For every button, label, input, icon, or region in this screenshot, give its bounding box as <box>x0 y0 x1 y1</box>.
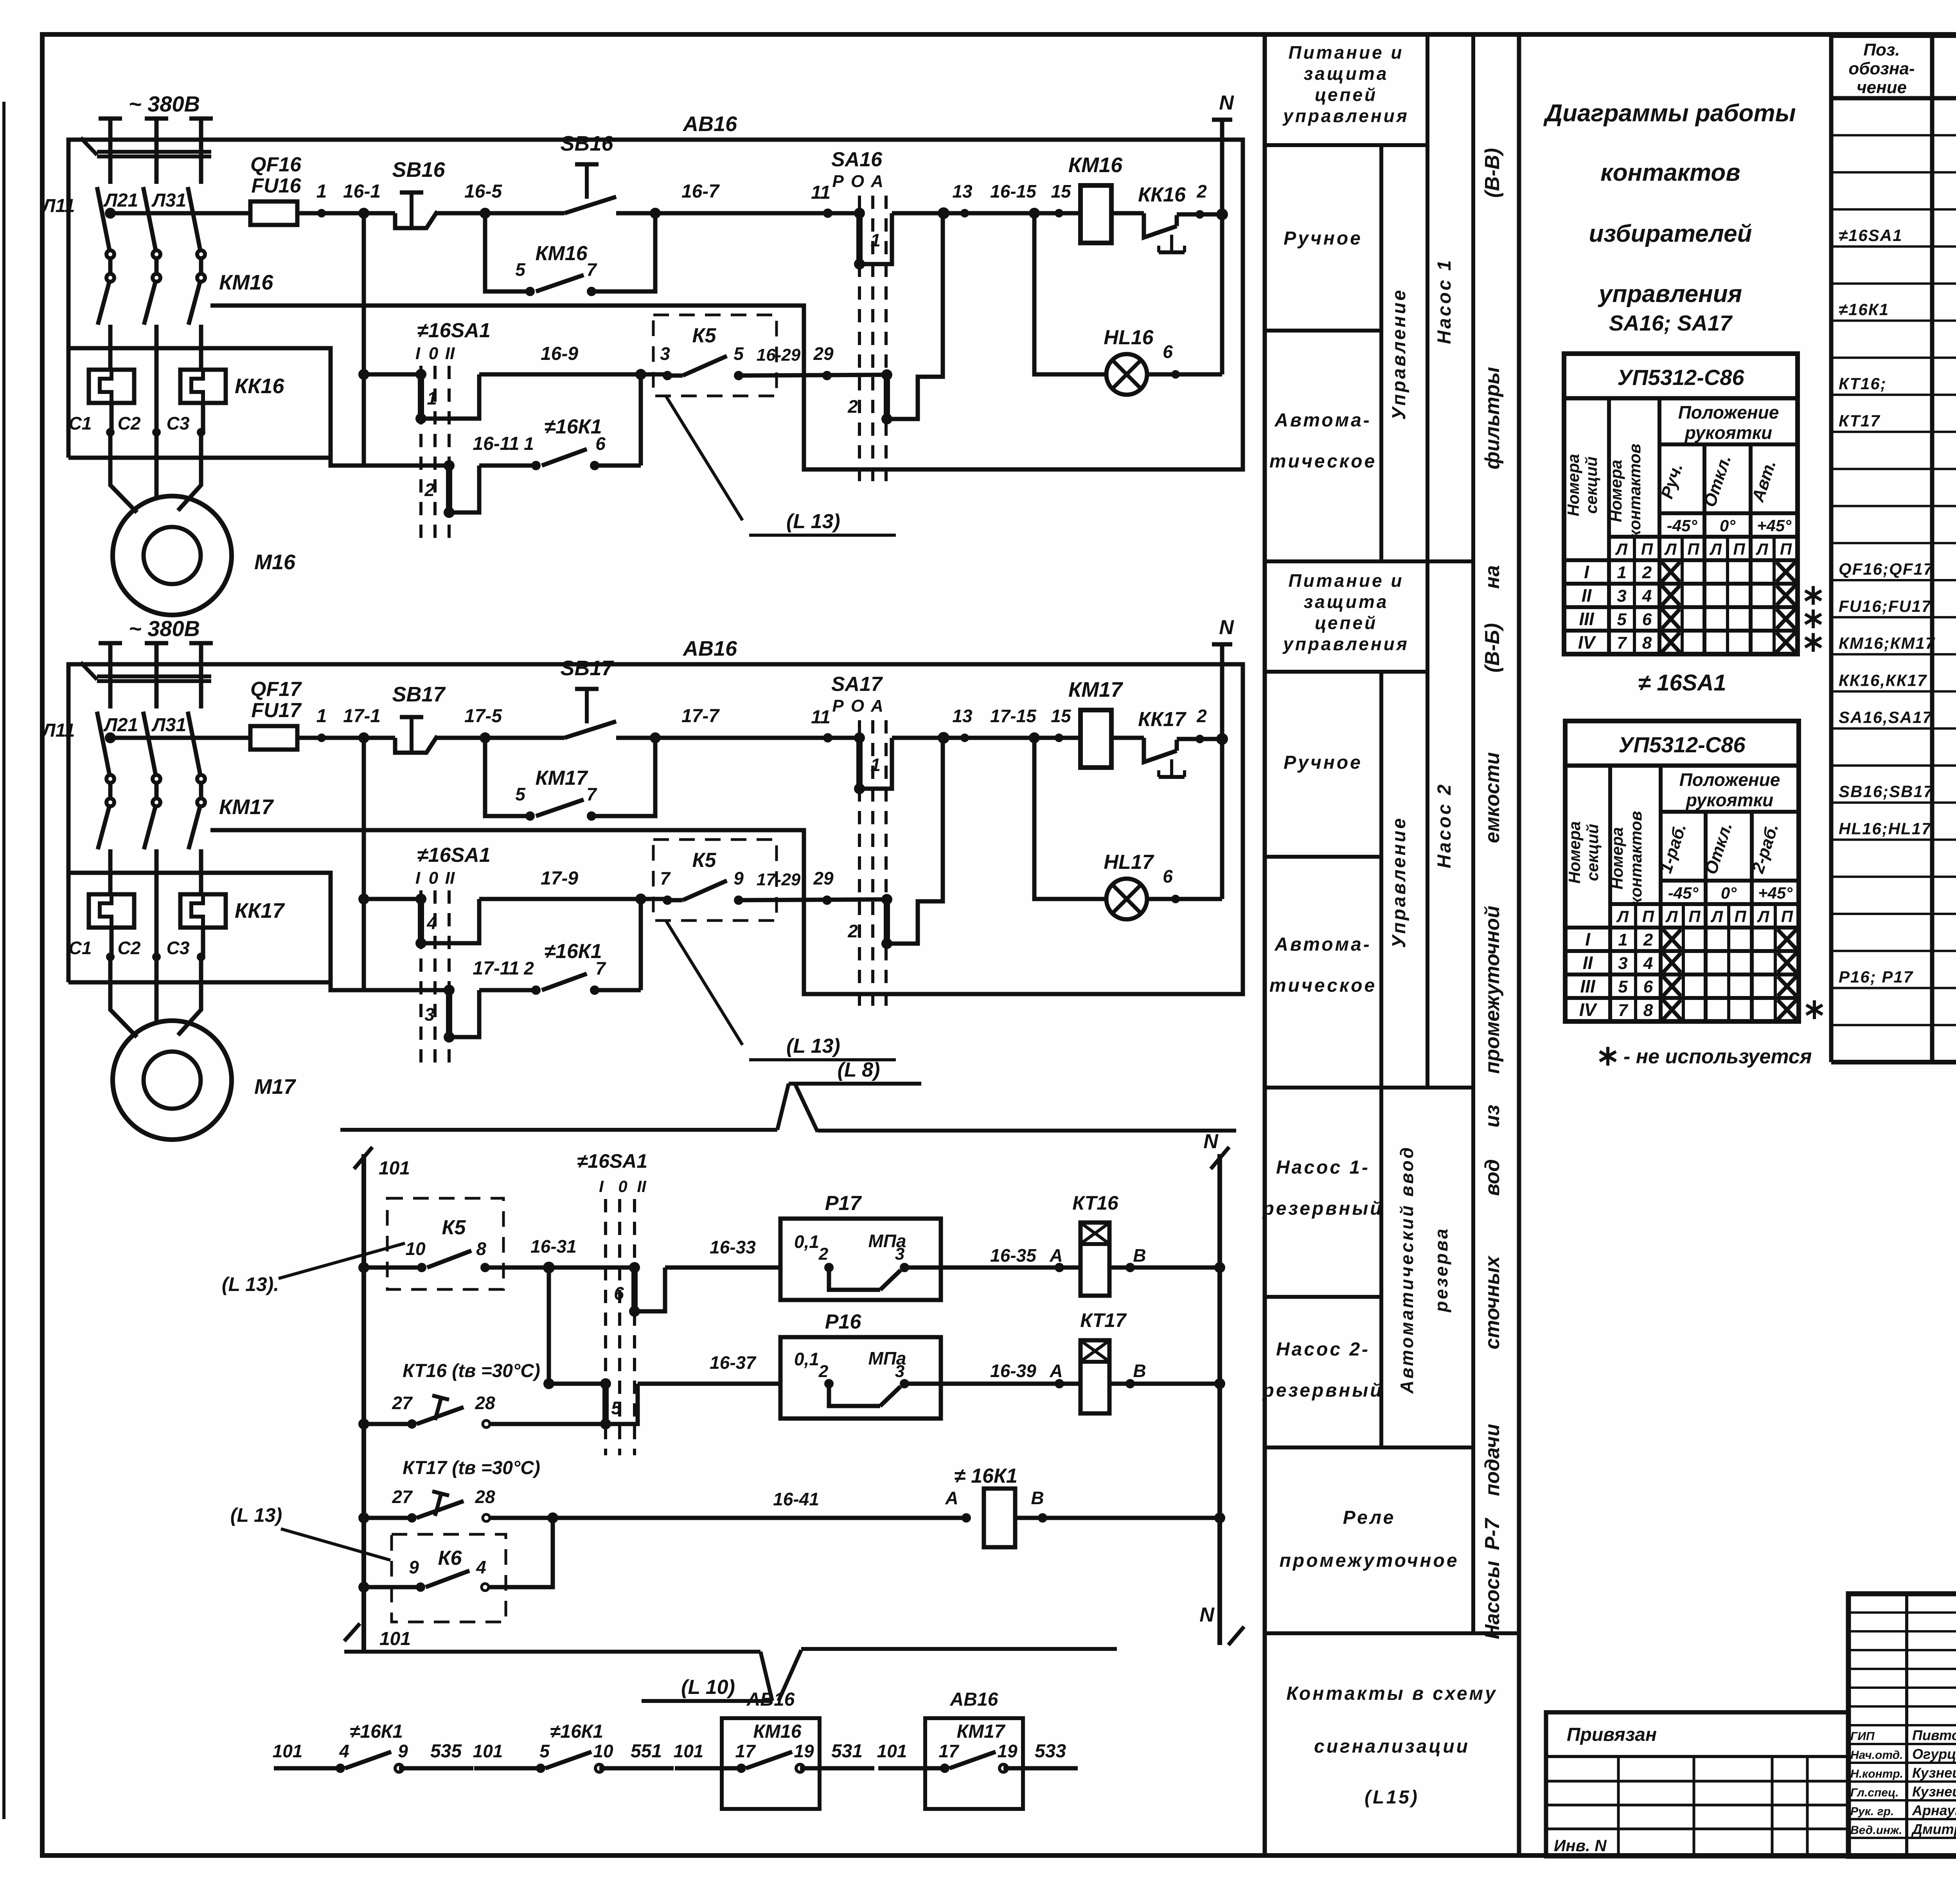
svg-text:17-9: 17-9 <box>541 868 578 889</box>
svg-text:К6: К6 <box>438 1547 462 1570</box>
thermal relay NC contact КК17 <box>1111 736 1144 740</box>
svg-text:3: 3 <box>895 1362 904 1381</box>
svg-text:Дмитриева: Дмитриева <box>1911 1821 1956 1837</box>
svg-text:фильтры: фильтры <box>1481 367 1504 469</box>
svg-text:SА16: SА16 <box>831 148 883 171</box>
selector table grid <box>1565 764 1799 768</box>
svg-text:16-1: 16-1 <box>343 181 381 202</box>
svg-text:2: 2 <box>1643 930 1653 949</box>
svg-text:КМ17: КМ17 <box>1068 678 1124 701</box>
svg-text:3: 3 <box>424 1004 435 1025</box>
svg-text:К5: К5 <box>442 1216 466 1239</box>
svg-text:1: 1 <box>870 230 881 250</box>
parts table row lines <box>1831 134 1956 137</box>
svg-text:2: 2 <box>847 921 858 941</box>
svg-text:КК16,КК17: КК16,КК17 <box>1839 671 1927 689</box>
svg-text:16-15: 16-15 <box>990 181 1037 201</box>
svg-text:К5: К5 <box>692 849 717 872</box>
svg-text:резервный: резервный <box>1262 1380 1383 1401</box>
svg-text:резервный: резервный <box>1262 1198 1383 1219</box>
svg-text:КК17: КК17 <box>235 899 285 922</box>
svg-text:9: 9 <box>733 868 744 888</box>
svg-text:управления: управления <box>1282 634 1409 654</box>
note: asterisk means not used <box>1606 1047 1609 1066</box>
svg-text:чение: чение <box>1857 78 1907 97</box>
node 16-1 <box>358 208 369 219</box>
svg-text:Р: Р <box>832 696 844 716</box>
svg-text:Автоматический ввод: Автоматический ввод <box>1397 1145 1417 1394</box>
svg-text:-45°: -45° <box>1668 884 1699 902</box>
svg-text:≠16К1: ≠16К1 <box>350 1721 403 1742</box>
svg-text:- не используется: - не используется <box>1623 1045 1812 1068</box>
selector contact SА16 pos 1 <box>854 208 865 219</box>
svg-text:0°: 0° <box>1720 516 1736 535</box>
svg-text:+45°: +45° <box>1758 884 1793 902</box>
left bus 101 top tick <box>354 1147 372 1169</box>
svg-text:III: III <box>1579 609 1595 629</box>
svg-text:Л: Л <box>1616 907 1629 926</box>
svg-text:SА17: SА17 <box>831 673 883 696</box>
selector 16SA1 contact lower circuit 1 <box>444 460 455 471</box>
junction 16-7 circuit 2 <box>650 732 661 743</box>
svg-text:сточных: сточных <box>1481 1255 1504 1350</box>
svg-text:1: 1 <box>1617 563 1626 582</box>
node 6 circuit 2 <box>1171 895 1180 903</box>
svg-text:АВ16: АВ16 <box>746 1689 795 1710</box>
svg-text:Пивторак: Пивторак <box>1912 1727 1956 1743</box>
title block outer box <box>1848 1594 1956 1856</box>
svg-text:QF17: QF17 <box>250 678 302 701</box>
svg-text:УП5312-С86: УП5312-С86 <box>1618 732 1746 757</box>
svg-text:С1: С1 <box>69 938 92 958</box>
svg-text:2: 2 <box>818 1244 829 1264</box>
svg-text:4: 4 <box>426 913 437 933</box>
signal lamp НL16 <box>1106 354 1147 395</box>
fuse FU16 <box>250 201 297 225</box>
svg-text:4: 4 <box>339 1741 349 1761</box>
svg-text:(L 13): (L 13) <box>786 1035 840 1057</box>
svg-text:N: N <box>1199 1604 1215 1626</box>
junction to coil feed circuit 2 <box>938 732 949 744</box>
svg-text:FU16;FU17: FU16;FU17 <box>1839 597 1931 615</box>
svg-text:Номера: Номера <box>1564 454 1582 516</box>
KT17 timed contact row 3 <box>358 1512 369 1523</box>
16SA1 contact 6 <box>629 1262 640 1273</box>
svg-text:В: В <box>1133 1361 1146 1381</box>
svg-text:4: 4 <box>1643 954 1653 973</box>
left bus bottom tick <box>344 1624 360 1641</box>
svg-text:О: О <box>851 172 864 191</box>
svg-text:ГИП: ГИП <box>1850 1730 1875 1743</box>
svg-text:8: 8 <box>1643 1001 1653 1020</box>
X marks closed contact states <box>1663 930 1681 949</box>
parts table outer verticals <box>1829 36 1834 1062</box>
svg-text:5: 5 <box>611 1398 622 1418</box>
pressure switch P17 <box>780 1219 941 1300</box>
svg-text:Л11: Л11 <box>41 720 75 741</box>
aux contact branch КМ16 <box>485 213 530 291</box>
selector contact SА16 pos 2 <box>881 369 892 380</box>
16SA1 contact 5 <box>600 1378 611 1389</box>
node 11 circuit 1 <box>823 209 832 218</box>
svg-text:≠16К1: ≠16К1 <box>1839 300 1889 319</box>
svg-text:7: 7 <box>586 259 597 280</box>
svg-text:16-29: 16-29 <box>757 345 801 365</box>
svg-text:3: 3 <box>660 343 670 364</box>
svg-text:Рук. гр.: Рук. гр. <box>1850 1805 1894 1818</box>
svg-text:16-41: 16-41 <box>773 1489 819 1509</box>
svg-text:М16: М16 <box>254 550 296 574</box>
aux contact branch КМ17 <box>485 738 530 816</box>
svg-text:13: 13 <box>952 181 973 201</box>
svg-text:4: 4 <box>476 1557 486 1577</box>
svg-text:Л21: Л21 <box>103 715 138 735</box>
motor М16 <box>113 496 232 615</box>
right bus N <box>1217 1154 1222 1645</box>
svg-text:II: II <box>445 868 455 888</box>
svg-text:I: I <box>1584 562 1589 582</box>
svg-text:10: 10 <box>405 1239 426 1259</box>
svg-text:КМ16: КМ16 <box>753 1721 802 1742</box>
fuse FU17 <box>250 726 297 750</box>
svg-text:551: 551 <box>631 1741 662 1762</box>
svg-text:Контакты в схему: Контакты в схему <box>1286 1683 1498 1704</box>
svg-text:SВ17: SВ17 <box>560 656 614 680</box>
svg-text:1: 1 <box>427 388 437 408</box>
svg-text:КТ17: КТ17 <box>1080 1309 1127 1331</box>
svg-text:Номера: Номера <box>1607 460 1625 522</box>
svg-text:управления: управления <box>1282 106 1409 126</box>
svg-text:2: 2 <box>424 480 435 500</box>
node 29 circuit 2 <box>822 895 832 905</box>
svg-text:Л: Л <box>1756 540 1769 558</box>
contactor main contacts КМ17 <box>106 798 114 806</box>
svg-text:Гл.спец.: Гл.спец. <box>1850 1786 1899 1799</box>
svg-text:КТ16 (tв =30°С): КТ16 (tв =30°С) <box>403 1361 540 1381</box>
svg-text:АВ16: АВ16 <box>950 1689 998 1710</box>
svg-text:Л: Л <box>1665 907 1678 926</box>
svg-text:КК16: КК16 <box>1138 183 1186 206</box>
signal lamp НL17 <box>1106 879 1147 919</box>
contactor coil КМ16 <box>1080 185 1111 243</box>
svg-text:15: 15 <box>1051 706 1071 726</box>
svg-text:16-39: 16-39 <box>990 1361 1036 1381</box>
svg-text:КМ16: КМ16 <box>1068 153 1123 177</box>
junction to coil feed circuit 1 <box>938 207 949 219</box>
svg-text:резерва: резерва <box>1431 1227 1451 1313</box>
svg-text:5: 5 <box>1618 977 1628 996</box>
svg-text:(L15): (L15) <box>1365 1787 1419 1808</box>
svg-text:≠16К1: ≠16К1 <box>550 1721 603 1742</box>
svg-text:535: 535 <box>430 1741 462 1762</box>
svg-text:КТ17: КТ17 <box>1839 412 1880 430</box>
svg-text:КМ17: КМ17 <box>535 767 588 789</box>
svg-text:контактов: контактов <box>1625 444 1644 538</box>
KT16 timed contact branch <box>358 1419 369 1429</box>
asterisks not used <box>1813 1000 1816 1019</box>
node 2 circuit 2 <box>1196 735 1204 743</box>
node 1 circuit 1 <box>317 209 326 218</box>
svg-text:избирателей: избирателей <box>1589 220 1752 247</box>
svg-text:Р: Р <box>832 172 844 191</box>
svg-text:Л: Л <box>1710 907 1723 926</box>
svg-text:I: I <box>599 1177 604 1196</box>
row 1: contact K5 of relay K5 <box>358 1262 369 1273</box>
rail tap junction circuit 2 <box>105 732 116 743</box>
wires to motor circuit 1 <box>110 432 137 512</box>
svg-text:В: В <box>1133 1245 1146 1266</box>
junction of K6 branch <box>547 1512 558 1523</box>
svg-text:≠16SА1: ≠16SА1 <box>417 844 491 867</box>
svg-text:6: 6 <box>1642 610 1652 629</box>
control tap wire circuit 1 <box>68 348 449 466</box>
svg-text:16-33: 16-33 <box>710 1237 756 1257</box>
junction of K1 branch circuit 1 <box>635 369 646 380</box>
svg-text:подачи: подачи <box>1481 1424 1504 1496</box>
svg-text:16-9: 16-9 <box>541 343 578 364</box>
svg-text:2: 2 <box>1196 181 1207 201</box>
svg-text:А: А <box>1049 1361 1062 1381</box>
svg-text:(L 10): (L 10) <box>681 1676 735 1699</box>
selector 16SA1 contact upper circuit 1 <box>415 369 426 380</box>
svg-text:цепей: цепей <box>1315 85 1377 105</box>
svg-text:КТ16: КТ16 <box>1072 1192 1119 1214</box>
svg-text:II: II <box>1583 953 1593 973</box>
svg-text:6: 6 <box>614 1283 624 1303</box>
circuit breaker QF16 <box>97 187 110 250</box>
svg-text:КМ16;КМ17: КМ16;КМ17 <box>1839 634 1935 653</box>
svg-text:(L 13): (L 13) <box>786 510 840 533</box>
svg-text:QF16;QF17: QF16;QF17 <box>1839 560 1933 579</box>
svg-text:П: П <box>1688 907 1701 926</box>
svg-text:Поз.: Поз. <box>1863 40 1900 59</box>
svg-text:0: 0 <box>429 868 439 888</box>
motor control circuit 1 (pump 1, -16) <box>41 92 1243 615</box>
svg-text:IV: IV <box>1579 1000 1598 1020</box>
svg-text:С3: С3 <box>167 413 190 433</box>
svg-text:А: А <box>870 696 883 716</box>
svg-text:SВ16: SВ16 <box>392 158 445 182</box>
svg-text:П: П <box>1642 907 1654 926</box>
svg-text:(В-Б): (В-Б) <box>1481 623 1504 672</box>
svg-text:13: 13 <box>952 706 973 726</box>
svg-text:5: 5 <box>515 784 526 804</box>
svg-text:19: 19 <box>794 1741 814 1761</box>
circuit breaker QF17 <box>97 712 110 775</box>
svg-text:Л21: Л21 <box>103 190 138 211</box>
svg-text:16-5: 16-5 <box>464 181 502 202</box>
svg-text:промежуточной: промежуточной <box>1481 906 1504 1074</box>
svg-text:III: III <box>1580 976 1596 996</box>
svg-text:Питание и: Питание и <box>1288 42 1404 63</box>
function-zone table borders <box>1263 34 1267 1856</box>
selector contact SА17 pos 2 <box>881 894 892 905</box>
svg-text:8: 8 <box>476 1239 486 1259</box>
asterisks not used <box>1812 586 1815 605</box>
svg-text:АВ16: АВ16 <box>682 637 737 660</box>
relay contact K5 circuit 1 <box>653 315 777 396</box>
node 16-31 <box>543 1262 555 1273</box>
junction 16-7 circuit 1 <box>650 208 661 219</box>
svg-text:101: 101 <box>674 1741 704 1761</box>
svg-text:FU16: FU16 <box>251 174 301 197</box>
auto branch vertical circuit 2 <box>362 738 366 990</box>
svg-text:1: 1 <box>1618 930 1627 949</box>
motor control circuit 2 (pump 2, -17) <box>41 616 1243 1140</box>
svg-text:0,1: 0,1 <box>794 1232 819 1252</box>
svg-text:≠ 16SA1: ≠ 16SA1 <box>1638 670 1726 696</box>
thermal relay heaters КК16 <box>89 370 134 403</box>
selector 16SA1 contact lower circuit 2 <box>444 985 455 996</box>
bus reference line (L8) <box>340 1128 777 1132</box>
svg-text:(L 13).: (L 13). <box>222 1273 279 1295</box>
svg-text:Н.контр.: Н.контр. <box>1850 1767 1903 1780</box>
privyazan block <box>1546 1712 1848 1856</box>
svg-text:I: I <box>415 344 421 363</box>
svg-text:6: 6 <box>1643 977 1653 996</box>
svg-text:16-31: 16-31 <box>530 1236 577 1257</box>
svg-text:II: II <box>445 344 455 363</box>
wire 930 to 16SA1 contact circuit 1 <box>364 372 421 377</box>
svg-text:А: А <box>945 1488 958 1508</box>
node 17-1 <box>358 732 369 743</box>
node 6 circuit 1 <box>1171 370 1180 379</box>
left bus 101 <box>361 1154 366 1652</box>
svg-text:7: 7 <box>1618 1001 1629 1020</box>
svg-text:101: 101 <box>379 1158 410 1179</box>
svg-text:цепей: цепей <box>1315 613 1377 633</box>
svg-text:≠16SА1: ≠16SА1 <box>577 1150 647 1172</box>
svg-text:≠16SА1: ≠16SА1 <box>417 319 491 342</box>
svg-text:≠16К1: ≠16К1 <box>544 940 602 963</box>
svg-text:Л: Л <box>1709 540 1722 558</box>
svg-text:101: 101 <box>473 1741 503 1761</box>
svg-text:НL17: НL17 <box>1104 851 1154 874</box>
svg-text:Привязан: Привязан <box>1567 1724 1657 1745</box>
right bus bottom tick <box>1228 1627 1244 1645</box>
svg-text:С3: С3 <box>167 938 190 958</box>
svg-text:Р-7: Р-7 <box>1481 1517 1504 1550</box>
svg-text:1: 1 <box>316 706 327 726</box>
svg-text:из: из <box>1481 1105 1504 1127</box>
svg-text:контактов: контактов <box>1627 811 1645 906</box>
parts table top and header <box>1831 33 1956 38</box>
stop button SВ16 <box>395 211 437 228</box>
svg-text:Л31: Л31 <box>151 190 186 211</box>
motor М17 <box>113 1021 232 1140</box>
svg-text:С2: С2 <box>118 938 141 958</box>
wires to motor circuit 2 <box>110 957 137 1037</box>
svg-text:17: 17 <box>735 1741 756 1761</box>
svg-text:5: 5 <box>1617 610 1627 629</box>
svg-text:Л: Л <box>1615 540 1628 558</box>
svg-text:промежуточное: промежуточное <box>1279 1550 1459 1571</box>
svg-text:защита: защита <box>1304 63 1389 84</box>
svg-text:4: 4 <box>1642 586 1652 606</box>
svg-text:управления: управления <box>1598 280 1742 307</box>
right bus N top tick <box>1211 1147 1229 1169</box>
svg-text:КМ17: КМ17 <box>219 795 274 819</box>
svg-text:2: 2 <box>1642 563 1652 582</box>
svg-text:КТ17 (tв =30°С): КТ17 (tв =30°С) <box>403 1458 540 1478</box>
svg-text:Арнаутова: Арнаутова <box>1912 1802 1956 1818</box>
svg-text:2: 2 <box>818 1362 829 1381</box>
svg-text:17-15: 17-15 <box>990 706 1037 726</box>
svg-text:N: N <box>1219 616 1234 639</box>
svg-text:сигнализации: сигнализации <box>1314 1736 1470 1757</box>
signature grid <box>1905 1594 1908 1856</box>
svg-text:Управление: Управление <box>1389 288 1409 420</box>
svg-text:~ 380В: ~ 380В <box>129 92 200 116</box>
pressure switch P16 <box>780 1337 941 1419</box>
enclosure box AB16 circuit 2 <box>68 664 1243 994</box>
svg-text:Кузнецов: Кузнецов <box>1912 1784 1956 1800</box>
svg-text:Л: Л <box>1664 540 1677 558</box>
svg-text:НL16;НL17: НL16;НL17 <box>1839 819 1931 838</box>
selector 16SA1 contact upper circuit 2 <box>415 894 426 904</box>
svg-text:27: 27 <box>392 1487 413 1507</box>
svg-text:КК16: КК16 <box>235 374 284 398</box>
svg-text:Насос 1: Насос 1 <box>1434 258 1455 344</box>
svg-text:УП5312-С86: УП5312-С86 <box>1617 365 1744 390</box>
svg-text:~ 380В: ~ 380В <box>129 616 200 641</box>
svg-text:тическое: тическое <box>1269 451 1377 472</box>
selector contact SА17 pos 1 <box>854 732 865 743</box>
svg-text:7: 7 <box>586 784 597 804</box>
svg-text:2: 2 <box>847 396 858 417</box>
svg-text:1: 1 <box>316 181 327 202</box>
svg-text:6: 6 <box>1163 342 1173 362</box>
svg-text:КМ16: КМ16 <box>535 242 588 265</box>
lamp branch junction circuit 1 <box>1029 208 1040 219</box>
svg-text:II: II <box>637 1177 647 1196</box>
svg-text:0,1: 0,1 <box>794 1349 819 1369</box>
svg-text:5: 5 <box>539 1741 550 1761</box>
bus reference line (L10) <box>344 1650 760 1654</box>
svg-text:Насос 1-: Насос 1- <box>1276 1157 1370 1178</box>
svg-text:КМ16: КМ16 <box>219 271 273 294</box>
svg-text:0: 0 <box>429 344 439 363</box>
relay contact K5 circuit 2 <box>653 840 777 921</box>
svg-text:17-7: 17-7 <box>681 706 720 726</box>
svg-text:28: 28 <box>475 1393 495 1413</box>
svg-text:27: 27 <box>392 1393 413 1413</box>
svg-text:N: N <box>1203 1130 1219 1153</box>
svg-text:Вед.инж.: Вед.инж. <box>1850 1824 1902 1837</box>
svg-text:≠16К1: ≠16К1 <box>544 415 602 438</box>
svg-text:Управление: Управление <box>1389 816 1409 948</box>
wire 930 to 16SA1 contact circuit 2 <box>364 897 421 901</box>
svg-text:Нач.отд.: Нач.отд. <box>1850 1749 1903 1762</box>
svg-text:рукоятки: рукоятки <box>1684 423 1772 443</box>
selector switch SА17 <box>828 736 859 740</box>
svg-text:3: 3 <box>1617 586 1626 606</box>
svg-text:11: 11 <box>811 707 831 728</box>
reference (L13) circuit 1 <box>666 396 742 520</box>
svg-text:I: I <box>1585 929 1591 949</box>
svg-text:обозна-: обозна- <box>1848 59 1915 78</box>
svg-text:П: П <box>1734 907 1746 926</box>
svg-text:Номера: Номера <box>1608 827 1626 889</box>
svg-text:≠ 16К1: ≠ 16К1 <box>954 1465 1018 1487</box>
svg-text:рукоятки: рукоятки <box>1685 790 1773 810</box>
svg-text:П: П <box>1687 540 1699 558</box>
svg-text:29: 29 <box>813 868 834 888</box>
svg-text:Р17: Р17 <box>825 1192 862 1215</box>
stop button SВ17 <box>395 736 437 753</box>
neutral wire N circuit 1 <box>1216 209 1228 220</box>
svg-text:II: II <box>1582 585 1592 606</box>
